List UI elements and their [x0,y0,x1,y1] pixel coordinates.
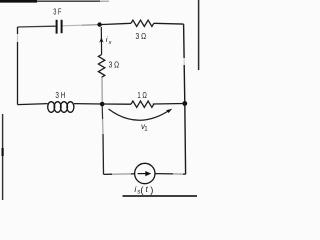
node B junction dot [182,101,187,106]
wire inductor to node C [74,103,102,105]
wire top-left (corner to capacitor) [18,25,56,28]
svg-text:1: 1 [144,125,148,132]
wire node A down (current arrow ix on it) [100,27,102,55]
resistor R3 1ohm [131,101,154,107]
wire capacitor to node A (faded) [63,24,83,27]
node C junction dot [100,102,105,107]
wire node A to resistor R1 [100,23,131,24]
page border right [198,0,200,70]
svg-text:): ) [150,184,153,195]
page rule line bottom [123,195,198,197]
arrowhead v1 [166,109,172,113]
wire R3 to node B [153,103,185,106]
svg-text:1 Ω: 1 Ω [137,90,147,100]
page border left [2,114,4,200]
wire bottom-left corner to source (partly faded) [104,173,113,175]
svg-text:x: x [108,40,112,46]
wire source to bottom-right corner (partly faded) [155,173,173,175]
wire left corner to inductor [18,104,48,105]
arrowhead current ix pointing up [99,37,103,42]
wire node C to resistor R3 [102,103,131,105]
capacitor C 3F left plate [56,20,58,34]
svg-text:3 F: 3 F [53,7,61,17]
voltage arrow v1 (curved) [109,109,170,120]
current source arrow [138,173,148,175]
node A junction dot [97,22,101,26]
resistor R1 3ohm (top) [131,20,154,26]
wire node B down to bottom-right corner [184,104,187,175]
wire R1 to top-right corner [154,22,184,25]
wire left side vertical [17,27,19,34]
page background [0,0,200,200]
svg-text:3 H: 3 H [55,90,65,100]
resistor R2 3ohm (vertical) [98,55,104,78]
wire right side down to node B [183,24,186,58]
page border top [0,0,37,3]
wire R2 down to node C (faded) [101,77,103,101]
svg-text:3 Ω: 3 Ω [109,60,120,70]
current source Is circle [135,163,155,183]
wire node C down to bottom-left corner (faded) [101,106,103,119]
capacitor C 3F right plate [61,20,63,33]
inductor L 3H (4 loops) [48,102,55,113]
svg-text:3 Ω: 3 Ω [136,31,147,41]
